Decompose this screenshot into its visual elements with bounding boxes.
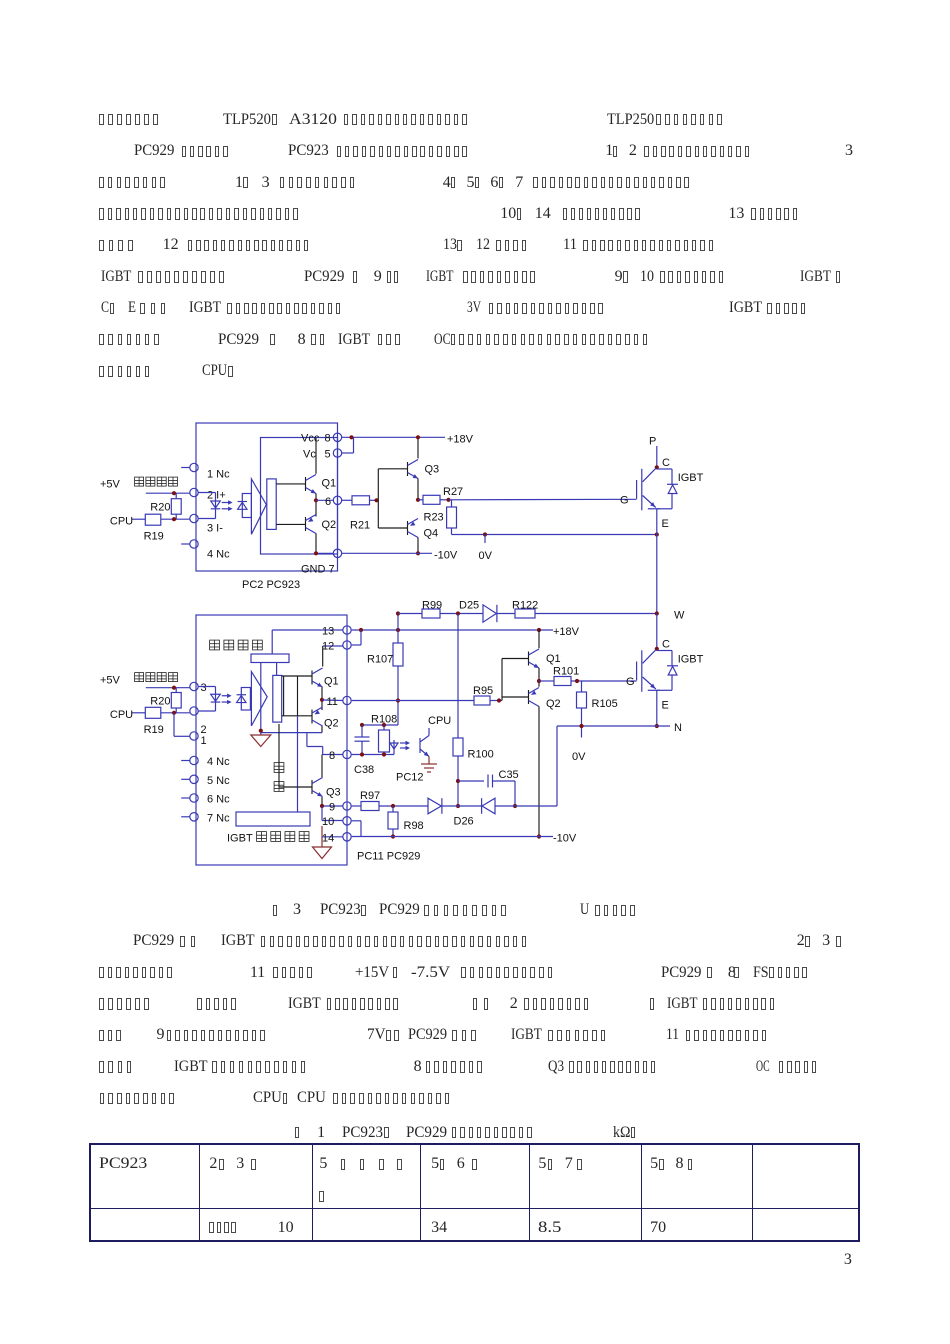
svg-text:CPU: CPU xyxy=(110,709,133,721)
svg-text:Vc: Vc xyxy=(303,449,316,461)
svg-text:Q1: Q1 xyxy=(546,653,561,665)
svg-text:Q1: Q1 xyxy=(322,478,337,490)
svg-text:1: 1 xyxy=(201,735,207,747)
svg-text:R101: R101 xyxy=(553,666,579,678)
svg-text:14: 14 xyxy=(322,833,334,845)
svg-text:R20: R20 xyxy=(150,502,170,514)
svg-text:C: C xyxy=(662,639,670,651)
svg-text:4 Nc: 4 Nc xyxy=(207,549,230,561)
svg-text:R122: R122 xyxy=(512,600,538,612)
svg-text:+18V: +18V xyxy=(553,626,580,638)
svg-text:R105: R105 xyxy=(592,698,618,710)
svg-text:11: 11 xyxy=(327,696,338,708)
svg-text:R19: R19 xyxy=(144,531,164,543)
svg-text:E: E xyxy=(662,700,669,712)
svg-text:G: G xyxy=(626,676,635,688)
svg-text:Q2: Q2 xyxy=(322,519,337,531)
svg-text:13: 13 xyxy=(322,626,334,638)
svg-text:W: W xyxy=(674,610,685,622)
svg-text:R98: R98 xyxy=(404,820,424,832)
svg-text:R95: R95 xyxy=(473,685,493,697)
svg-text:0V: 0V xyxy=(572,751,586,763)
svg-text:R27: R27 xyxy=(443,486,463,498)
svg-text:C38: C38 xyxy=(354,764,374,776)
svg-text:6: 6 xyxy=(325,496,331,508)
svg-text:0V: 0V xyxy=(479,550,493,562)
svg-text:Q4: Q4 xyxy=(424,528,439,540)
svg-text:CPU: CPU xyxy=(110,516,133,528)
svg-text:Q3: Q3 xyxy=(326,787,341,799)
svg-text:+5V: +5V xyxy=(100,479,121,491)
svg-text:PC2 PC923: PC2 PC923 xyxy=(242,579,300,591)
svg-text:+18V: +18V xyxy=(447,434,474,446)
svg-text:3: 3 xyxy=(201,682,207,694)
svg-text:R20: R20 xyxy=(150,696,170,708)
svg-text:PC11 PC929: PC11 PC929 xyxy=(357,851,420,863)
svg-text:IGBT: IGBT xyxy=(227,833,253,845)
svg-text:GND 7: GND 7 xyxy=(301,564,335,576)
svg-text:9: 9 xyxy=(329,802,335,814)
svg-text:R21: R21 xyxy=(350,520,370,532)
svg-text:R99: R99 xyxy=(422,600,442,612)
svg-text:R108: R108 xyxy=(371,714,397,726)
svg-text:CPU: CPU xyxy=(428,715,451,727)
svg-text:R97: R97 xyxy=(360,790,380,802)
svg-text:-10V: -10V xyxy=(553,833,577,845)
svg-text:8: 8 xyxy=(325,433,331,445)
svg-text:1 Nc: 1 Nc xyxy=(207,469,230,481)
svg-text:3 I-: 3 I- xyxy=(207,523,223,535)
svg-text:Q2: Q2 xyxy=(546,698,561,710)
svg-text:R107: R107 xyxy=(367,654,393,666)
svg-text:5: 5 xyxy=(325,449,331,461)
svg-text:R100: R100 xyxy=(468,749,494,761)
svg-text:10: 10 xyxy=(322,816,334,828)
svg-text:6 Nc: 6 Nc xyxy=(207,794,230,806)
svg-text:Q2: Q2 xyxy=(324,718,339,730)
svg-text:2 I+: 2 I+ xyxy=(207,490,226,502)
svg-text:IGBT: IGBT xyxy=(678,654,704,666)
svg-text:D25: D25 xyxy=(459,600,479,612)
svg-text:12: 12 xyxy=(322,641,334,653)
svg-text:Q3: Q3 xyxy=(425,464,440,476)
svg-text:E: E xyxy=(662,518,669,530)
svg-text:R19: R19 xyxy=(144,724,164,736)
svg-text:5 Nc: 5 Nc xyxy=(207,775,230,787)
svg-text:4 Nc: 4 Nc xyxy=(207,756,230,768)
svg-text:Q1: Q1 xyxy=(324,676,339,688)
svg-text:+5V: +5V xyxy=(100,675,121,687)
svg-text:-10V: -10V xyxy=(434,550,458,562)
svg-text:G: G xyxy=(620,495,629,507)
svg-text:P: P xyxy=(649,436,656,448)
svg-text:D26: D26 xyxy=(454,816,474,828)
svg-text:N: N xyxy=(674,722,682,734)
svg-text:C35: C35 xyxy=(499,769,519,781)
svg-text:8: 8 xyxy=(329,750,335,762)
svg-text:R23: R23 xyxy=(424,512,444,524)
svg-text:PC12: PC12 xyxy=(396,772,424,784)
svg-text:7 Nc: 7 Nc xyxy=(207,813,230,825)
svg-text:IGBT: IGBT xyxy=(678,472,704,484)
svg-text:Vcc: Vcc xyxy=(301,433,320,445)
svg-text:C: C xyxy=(662,457,670,469)
